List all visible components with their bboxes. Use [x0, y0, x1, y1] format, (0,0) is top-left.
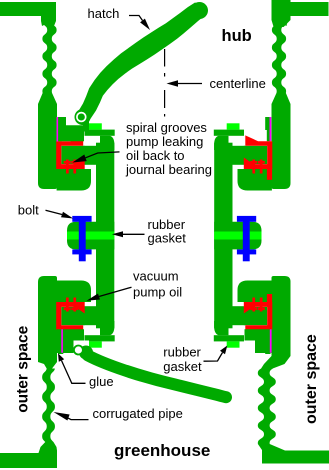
corrugated pipe (bottom left)	[0, 362, 57, 468]
hinge pin bottom	[74, 346, 83, 355]
svg-text:greenhouse: greenhouse	[114, 441, 210, 460]
rubber gasket bottom right label arrow	[204, 353, 223, 362]
red journal stub top right	[267, 169, 272, 180]
hatch (upper arm)	[77, 2, 204, 120]
hatch lower arm	[79, 346, 93, 360]
centerline	[164, 49, 166, 117]
top right unit (mirrored)	[214, 2, 329, 232]
svg-text:journal bearing: journal bearing	[125, 162, 212, 177]
top right pipe top stub	[272, 0, 291, 27]
hatch journal neck bottom left	[57, 329, 84, 353]
glue label arrow	[62, 361, 86, 384]
corrugated pipe label arrow	[68, 418, 89, 420]
svg-text:pump leaking: pump leaking	[126, 134, 203, 149]
hub core top left (hatch seat, journal bearing, pedestal, column)	[56, 117, 114, 232]
vacuum pump oil label arrow	[99, 287, 132, 296]
red journal stub bottom right	[267, 294, 272, 303]
corrugated pipe (bottom right)	[258, 356, 329, 464]
svg-text:centerline: centerline	[210, 76, 266, 91]
bolt label arrow	[46, 210, 63, 214]
svg-text:outer space: outer space	[15, 325, 32, 412]
svg-text:corrugated pipe: corrugated pipe	[93, 406, 183, 421]
svg-text:hatch: hatch	[88, 6, 120, 21]
svg-text:outer space: outer space	[303, 334, 320, 424]
svg-text:spiral grooves: spiral grooves	[126, 120, 207, 135]
svg-text:pump oil: pump oil	[133, 284, 182, 299]
svg-text:rubber: rubber	[148, 217, 186, 232]
corrugated pipe (top left)	[0, 2, 57, 104]
bottom right unit (mirrored)	[214, 239, 291, 356]
bottom left unit (mirrored)	[38, 239, 115, 362]
hinge neck bridge top	[83, 122, 89, 132]
svg-text:gasket: gasket	[163, 359, 202, 374]
svg-text:glue: glue	[89, 374, 114, 389]
hatch label arrow	[129, 16, 143, 21]
spiral grooves label arrow	[86, 152, 120, 158]
hatch journal neck top left	[58, 117, 84, 141]
hinge pin top	[77, 113, 86, 122]
hatch journal neck bottom right (mirrored)	[245, 329, 272, 353]
right flange and bolt (mirrored)	[214, 216, 261, 261]
svg-text:hub: hub	[222, 27, 252, 45]
glue line bottom right	[270, 329, 272, 353]
glue line top right	[270, 117, 272, 141]
white hinge notch bottom left	[74, 341, 90, 357]
hinge knob top	[75, 109, 91, 125]
svg-text:oil back to: oil back to	[126, 148, 185, 163]
svg-text:bolt: bolt	[18, 203, 39, 218]
centerline label arrow	[178, 83, 202, 85]
svg-text:rubber: rubber	[163, 344, 201, 359]
svg-text:gasket: gasket	[148, 231, 187, 246]
svg-text:vacuum: vacuum	[133, 269, 179, 284]
left flange and bolt	[67, 216, 114, 261]
glue line bottom left	[61, 329, 63, 353]
flange block top left	[38, 104, 57, 189]
rubber gasket mid label arrow	[123, 233, 145, 235]
glue line top left	[57, 117, 59, 142]
